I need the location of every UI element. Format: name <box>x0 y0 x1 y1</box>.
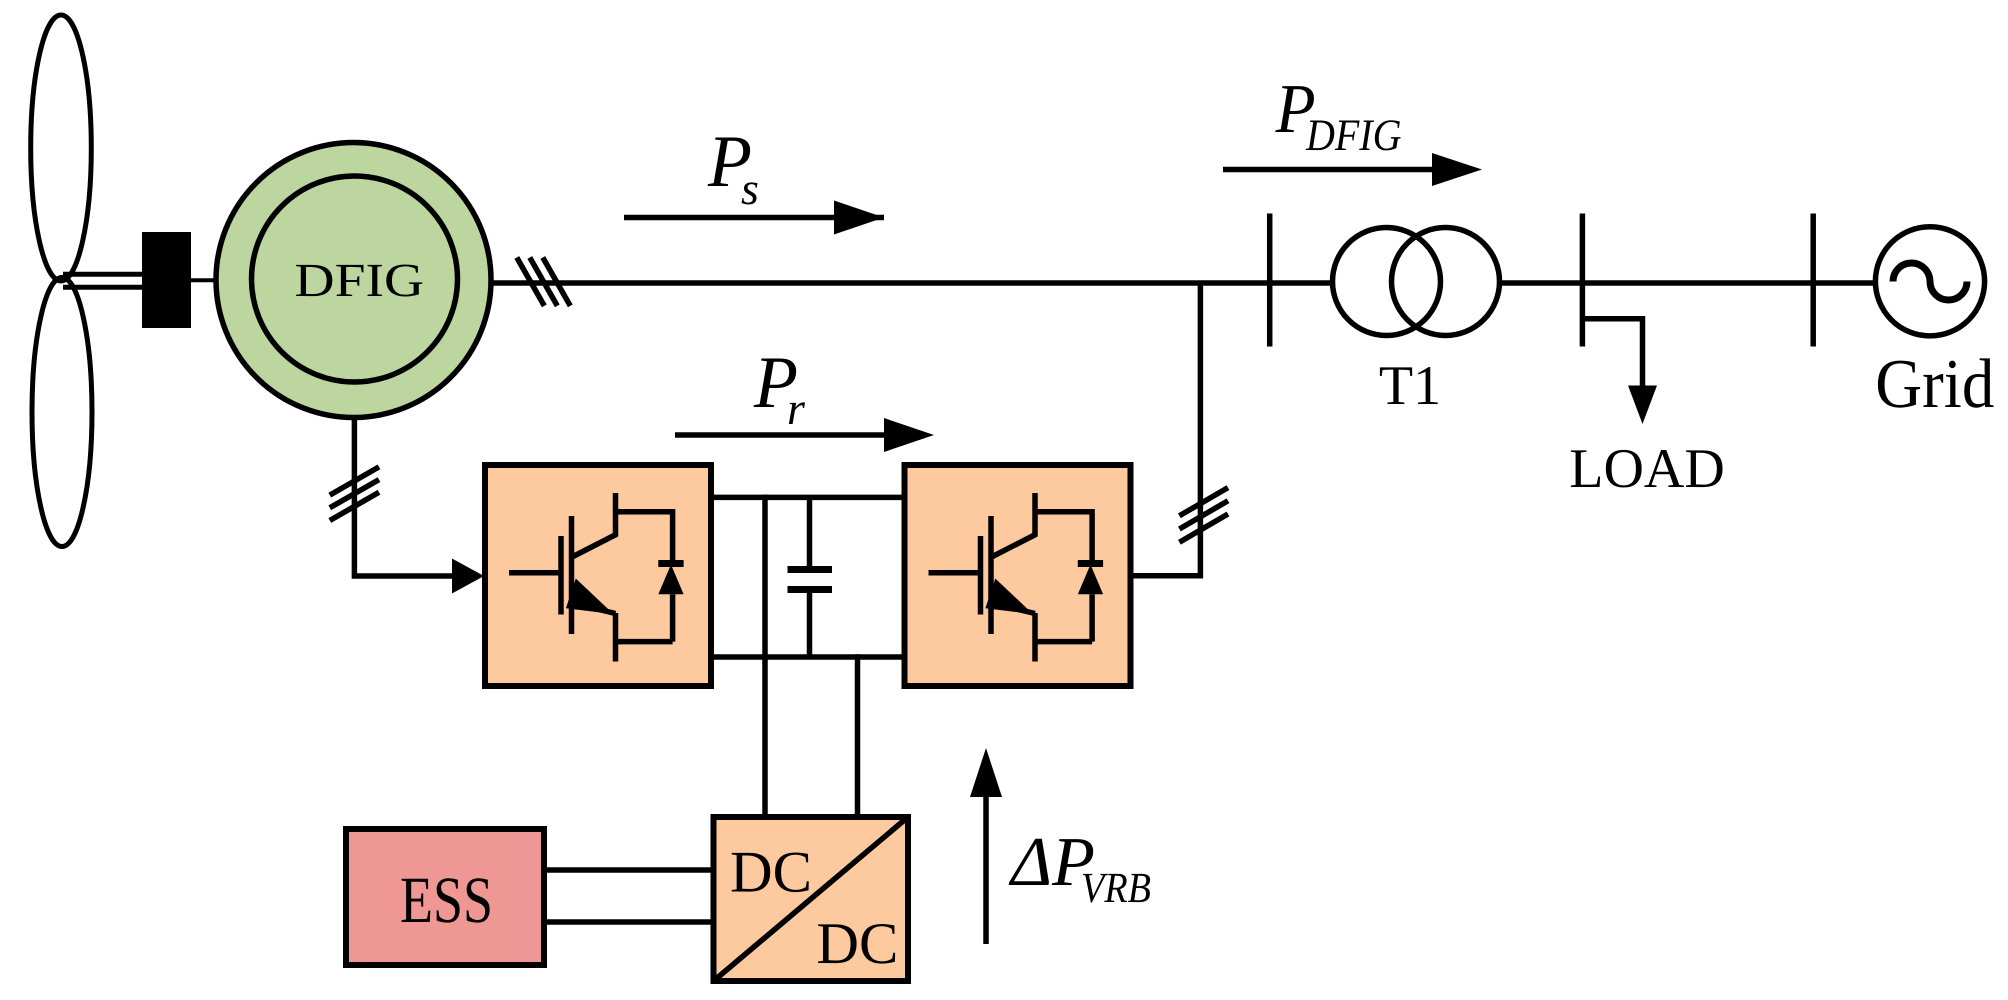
svg-text:DC: DC <box>730 839 812 905</box>
svg-text:DFIG: DFIG <box>295 255 425 307</box>
DC link bottom rail <box>711 654 904 660</box>
three-phase slashes on stator wire <box>517 258 571 306</box>
arrow Ps <box>624 215 884 221</box>
gearbox <box>142 232 191 328</box>
three-phase slashes on grid-side converter wire <box>1179 488 1228 543</box>
wind turbine blade lower <box>32 278 92 547</box>
DC/DC converter box <box>714 817 909 981</box>
svg-text:T1: T1 <box>1379 355 1441 417</box>
svg-text:s: s <box>741 163 759 214</box>
LOAD branch wire <box>1582 319 1642 387</box>
IGBT U1 <box>509 493 684 662</box>
svg-text:r: r <box>787 383 806 434</box>
bus bar 1 <box>1267 214 1273 347</box>
arrow dPVRB <box>983 795 989 944</box>
DC/DC diagonal <box>714 817 909 981</box>
svg-text:Grid: Grid <box>1875 346 1994 423</box>
wire to DC/DC from top rail <box>762 495 768 817</box>
rotor wire from DFIG <box>354 418 452 577</box>
stator wire right of transformer <box>1500 280 1877 286</box>
arrow PDFIG <box>1223 167 1434 173</box>
Grid source circle <box>1875 227 1984 336</box>
rotor-side converter box <box>485 465 711 686</box>
bus bar 3 <box>1810 214 1816 347</box>
svg-text:ESS: ESS <box>400 864 493 937</box>
transformer T1 circle right <box>1392 228 1500 336</box>
svg-text:DFIG: DFIG <box>1305 110 1401 160</box>
svg-text:DC: DC <box>816 910 898 976</box>
DFIG generator inner circle <box>252 176 458 382</box>
svg-text:VRB: VRB <box>1081 865 1151 912</box>
wire ESS to DC/DC upper <box>544 867 713 873</box>
wind turbine blade upper <box>31 15 92 281</box>
wire gearbox to DFIG <box>191 278 218 282</box>
ESS box <box>346 829 544 965</box>
arrowhead into rotor-side converter <box>452 559 484 594</box>
svg-text:LOAD: LOAD <box>1569 438 1725 500</box>
wire to DC/DC from bottom rail <box>855 654 861 817</box>
shaft double line <box>63 272 142 277</box>
wire ESS to DC/DC lower <box>544 919 713 925</box>
bus bar 2 <box>1580 214 1586 347</box>
sine wave inside Grid circle <box>1893 263 1967 300</box>
IGBT U2 <box>929 493 1104 662</box>
LOAD arrowhead <box>1628 386 1657 425</box>
DFIG generator outer circle <box>216 143 491 418</box>
DC link top rail <box>711 495 904 501</box>
DC link capacitor C1 <box>807 497 813 567</box>
transformer T1 circle left <box>1333 228 1441 336</box>
grid-side converter output wire <box>1131 283 1200 576</box>
three-phase slashes on rotor wire <box>330 467 379 521</box>
stator wire <box>490 280 1333 286</box>
arrow Pr <box>675 432 884 438</box>
grid-side converter box <box>905 465 1131 686</box>
